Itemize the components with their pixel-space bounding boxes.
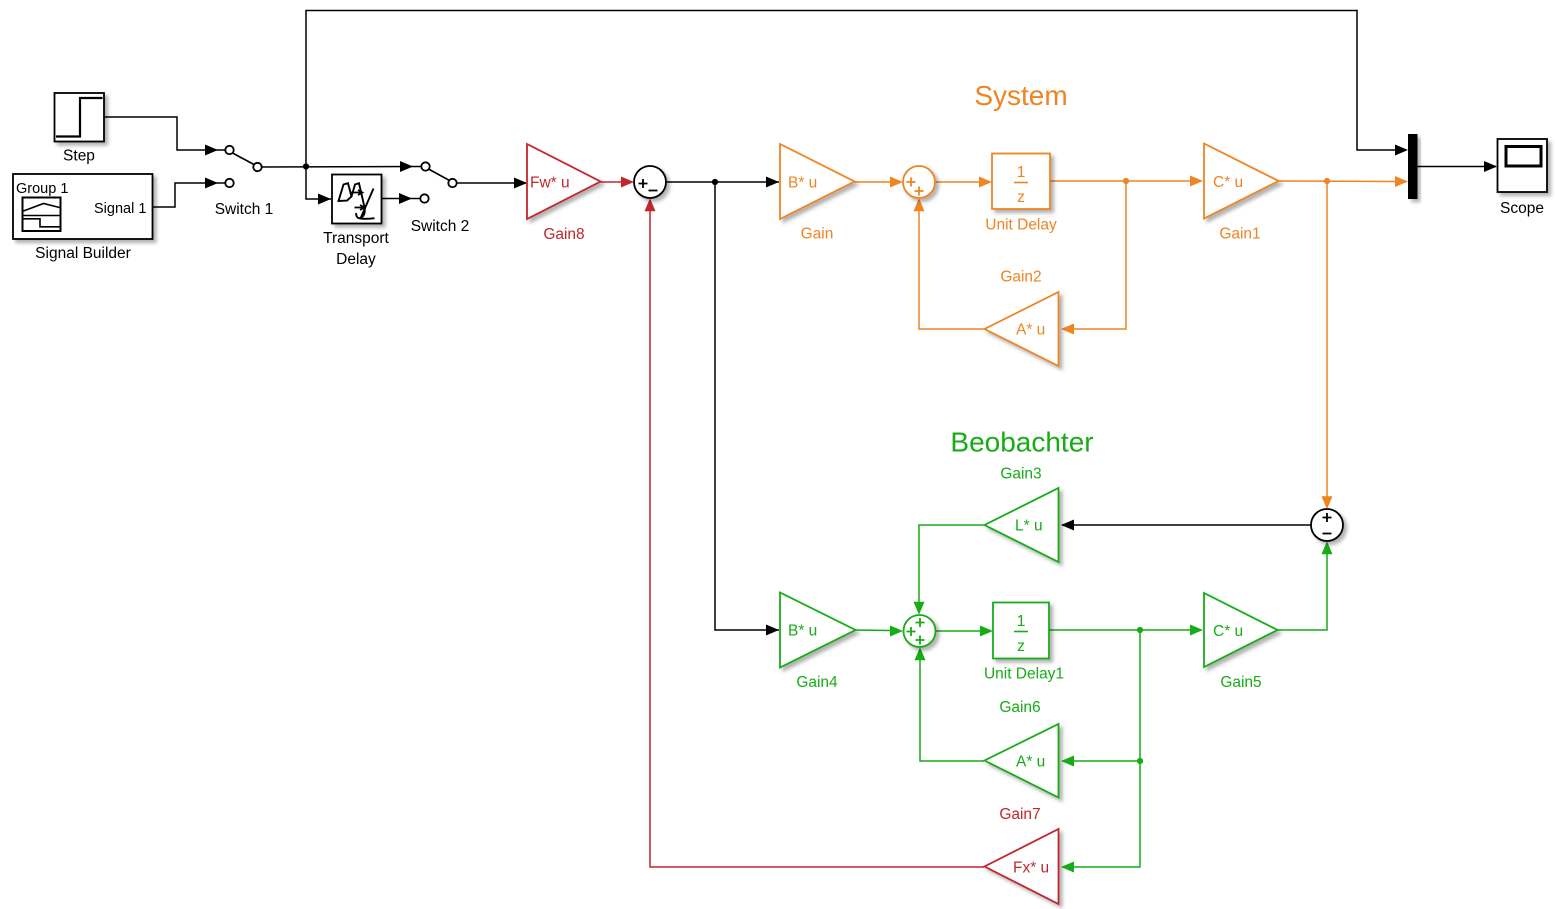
svg-text:C* u: C* u (1213, 174, 1243, 191)
wire Switch 2 output to Gain8 (457, 182, 528, 184)
svg-text:Fx* u: Fx* u (1013, 860, 1049, 877)
arrowhead orange into Unit Delay (979, 177, 992, 188)
gain Gain (780, 144, 855, 219)
sum Sum1 (634, 166, 666, 198)
arrowhead into Gain3 (pointing left) (1061, 520, 1074, 531)
arrowhead green into Sum4 bottom (up) (915, 647, 926, 660)
wire Mux to Scope (1417, 166, 1496, 168)
svg-text:z: z (1017, 638, 1025, 655)
svg-text:Gain2: Gain2 (1000, 269, 1041, 286)
svg-text:Unit Delay1: Unit Delay1 (984, 666, 1064, 683)
mux Mux (1408, 134, 1418, 199)
svg-text:1: 1 (1017, 613, 1026, 630)
wire Unit Delay1 to Gain5 (1049, 629, 1191, 631)
svg-text:Switch 1: Switch 1 (215, 201, 274, 218)
wire branch down to Transport Delay (306, 167, 331, 200)
WIRES-ORANGE (855, 181, 1397, 497)
gain Gain4 (780, 593, 856, 668)
wire Switch 1 output to Switch 2 (261, 166, 421, 169)
wire Gain3 to Sum4 top (919, 525, 984, 602)
arrowhead into Switch 2 bottom (399, 193, 412, 204)
ARROWS-BLACK (205, 145, 1497, 636)
wire Sum2 to Unit Delay (935, 181, 980, 183)
block Unit Delay1 (993, 603, 1049, 659)
svg-text:z: z (1017, 189, 1025, 206)
block Scope (1498, 139, 1548, 192)
arrowhead red into Sum1 bottom (645, 198, 656, 211)
wire Gain5 to Sum3 bottom (1278, 554, 1328, 630)
svg-text:Scope: Scope (1500, 200, 1544, 217)
block Switch 2 (420, 162, 456, 202)
sum Sum2 (903, 166, 935, 198)
gain Gain5 (1204, 593, 1278, 667)
gain Gain8 (527, 144, 601, 219)
svg-text:A* u: A* u (1016, 322, 1045, 339)
svg-text:Gain3: Gain3 (1000, 466, 1041, 483)
arrowhead orange into Mux bottom (1395, 176, 1408, 187)
svg-text:Gain8: Gain8 (543, 226, 584, 243)
svg-text:Gain4: Gain4 (796, 674, 838, 691)
block Switch 1 (225, 146, 261, 187)
arrowhead green into Sum3 bottom (up) (1322, 541, 1333, 554)
svg-text:Gain5: Gain5 (1220, 674, 1261, 691)
BLOCKS-RED (527, 144, 1059, 904)
svg-text:Switch 2: Switch 2 (411, 218, 470, 235)
wire Sum1 to Gain junction (666, 181, 779, 183)
gain Gain2 (985, 292, 1059, 366)
block Step (55, 93, 105, 142)
block Unit Delay (992, 154, 1050, 210)
junction dot at Switch output branch (303, 163, 309, 169)
svg-text:Gain7: Gain7 (999, 806, 1040, 823)
block Transport Delay (332, 175, 382, 224)
svg-text:1: 1 (1017, 164, 1026, 181)
WIRES-BLACK (104, 11, 1496, 631)
wire Gain7 Fx*u to Sum1 bottom (650, 210, 984, 867)
wire Gain8 to Sum1 (601, 181, 623, 183)
gain Gain7 (985, 829, 1059, 904)
arrowhead orange into Gain1 (1190, 176, 1203, 187)
wire Sum4 to Unit Delay1 (935, 630, 981, 632)
arrowhead green into Gain7 (left) (1061, 862, 1074, 873)
junction dot at Unit Delay output (1123, 178, 1129, 184)
arrowhead into Switch 1 top (205, 145, 218, 156)
wire Gain4 to Sum4 (856, 629, 892, 632)
arrowhead orange into Sum2 bottom (914, 198, 925, 211)
arrowhead orange into Gain2 (pointing left) (1061, 324, 1074, 335)
svg-text:Unit Delay: Unit Delay (985, 217, 1057, 234)
wire Gain2 to Sum2 bottom (919, 210, 984, 329)
wire feedback down from Unit Delay1 out to Gain6 (1074, 630, 1140, 761)
wire Gain1 to Mux bottom (1279, 180, 1397, 183)
BLOCKS-GREEN (780, 427, 1278, 798)
junction dot at Unit Delay1 output (1137, 627, 1143, 633)
sum Sum4 (904, 615, 936, 647)
arrowhead green into Gain6 (left) (1061, 756, 1074, 767)
arrowhead into Scope (1484, 161, 1497, 172)
svg-text:Gain1: Gain1 (1219, 226, 1260, 243)
wire feedback Unit Delay out down to Gain2 (1074, 181, 1126, 329)
svg-text:Signal Builder: Signal Builder (35, 245, 131, 262)
arrowhead into Switch 1 bottom (205, 178, 218, 189)
svg-text:Gain: Gain (801, 226, 834, 243)
wire branch Gain1 down to Sum3 top (1326, 181, 1328, 497)
svg-text:B* u: B* u (788, 175, 817, 192)
BLOCKS-ORANGE (780, 80, 1279, 366)
arrowhead green into Unit Delay1 (980, 626, 993, 637)
BLOCKS-BLACK (13, 93, 1547, 541)
svg-text:A* u: A* u (1016, 754, 1045, 771)
svg-text:Gain6: Gain6 (999, 699, 1040, 716)
arrowhead orange into Sum3 top (pointing down) (1322, 496, 1333, 509)
wire Unit Delay to Gain1 (1050, 180, 1191, 182)
arrowhead into Gain (766, 177, 779, 188)
gain Gain6 (985, 724, 1059, 798)
arrowhead into Gain4 (766, 625, 779, 636)
WIRES-GREEN (856, 525, 1328, 867)
wire top feedback u to Mux (306, 11, 1396, 167)
svg-text:System: System (974, 80, 1067, 111)
arrowhead into Mux top (1395, 145, 1408, 156)
svg-text:Signal 1: Signal 1 (94, 201, 146, 217)
arrowhead into Transport Delay (318, 194, 331, 205)
arrowhead green into Gain5 (1190, 625, 1203, 636)
sum Sum3 (1311, 509, 1343, 541)
wire branch down to Gain4 (715, 182, 779, 630)
svg-text:L* u: L* u (1015, 518, 1043, 535)
svg-text:Delay: Delay (336, 251, 376, 268)
WIRES-RED (601, 182, 985, 867)
arrowhead red into Sum1 left (621, 177, 634, 188)
arrowhead orange into Sum2 left (890, 177, 903, 188)
gain Gain3 (985, 488, 1059, 562)
arrowhead into Gain8 (514, 178, 527, 189)
svg-text:B* u: B* u (788, 623, 817, 640)
wire Transport Delay to Switch 2 (382, 198, 421, 200)
junction dot at Gain6 input branch (1137, 758, 1143, 764)
arrowhead green into Sum4 left (890, 626, 903, 637)
svg-text:Fw* u: Fw* u (530, 175, 570, 192)
svg-text:Beobachter: Beobachter (950, 427, 1093, 458)
wire Step to Switch 1 (104, 117, 225, 150)
junction dot after Sum1 (712, 179, 718, 185)
svg-text:C* u: C* u (1213, 623, 1243, 640)
junction dot at Gain1 output (1324, 178, 1330, 184)
svg-text:Transport: Transport (323, 230, 389, 247)
arrowhead green into Sum4 top (down) (914, 602, 925, 615)
wire Sum3 output to Gain3 (1062, 524, 1311, 526)
gain Gain1 (1204, 144, 1279, 219)
wire Gain6 to Sum4 bottom (920, 659, 984, 761)
svg-text:Group 1: Group 1 (16, 181, 68, 197)
wire branch down to Gain7 Fx*u (1074, 761, 1140, 867)
wire Signal Builder to Switch 1 (153, 183, 226, 207)
svg-text:Step: Step (63, 148, 95, 165)
wire Gain to Sum2 (855, 181, 892, 183)
arrowhead into Switch 2 top (400, 161, 413, 172)
block Signal Builder (13, 174, 153, 239)
